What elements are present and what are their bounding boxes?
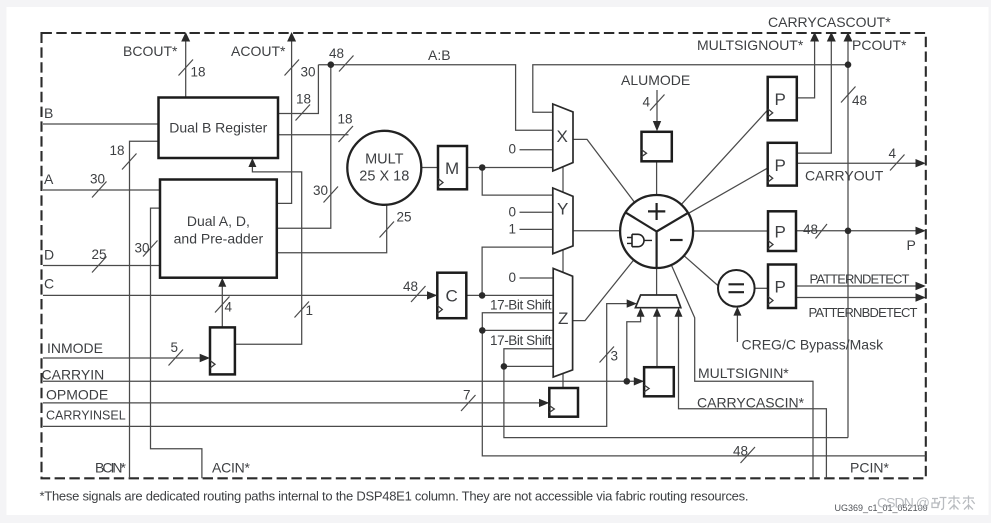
wire pre-adder to multiplier <box>277 205 387 253</box>
node A:B junction <box>328 61 335 68</box>
svg-text:ALUMODE: ALUMODE <box>621 72 690 88</box>
svg-text:M: M <box>445 159 459 178</box>
svg-text:25 X 18: 25 X 18 <box>359 169 409 185</box>
bus slash ACIN 30 <box>143 241 158 257</box>
wire B register to multiplier <box>278 134 349 136</box>
svg-text:4: 4 <box>643 95 651 110</box>
svg-text:7: 7 <box>463 388 471 403</box>
wire ALU to pattern comparator <box>684 256 718 286</box>
svg-text:ACOUT*: ACOUT* <box>231 43 286 59</box>
register CARRYIN <box>644 367 674 396</box>
wire B input <box>43 123 159 125</box>
svg-text:*These signals are dedicated r: *These signals are dedicated routing pat… <box>40 489 749 504</box>
register P CARRYOUT <box>768 143 797 186</box>
svg-text:30: 30 <box>90 172 105 187</box>
svg-text:P: P <box>775 223 786 242</box>
bus slash PCIN 48 <box>741 447 756 463</box>
svg-text:Dual B Register: Dual B Register <box>169 120 267 136</box>
wire PCIN bus <box>482 313 926 456</box>
node C output junction <box>479 292 486 299</box>
wire P feedback to Z mux shift input <box>504 349 848 438</box>
mux X <box>553 104 573 171</box>
arrowhead into C register <box>427 291 437 299</box>
wire ACOUT <box>277 34 292 203</box>
bus slash B to A:B 18 <box>296 105 311 121</box>
arrowhead into ALUMODE register <box>653 121 661 131</box>
bus slash INMODE 4 <box>215 297 230 313</box>
svg-text:OPMODE: OPMODE <box>46 387 108 403</box>
svg-text:3: 3 <box>611 349 619 364</box>
arrowhead CARRYOUT <box>916 159 926 167</box>
register P MULTSIGNOUT <box>768 77 797 120</box>
bus slash A to A:B 30 <box>324 187 339 203</box>
register Dual B <box>159 98 279 159</box>
wire C register to Z mux <box>466 294 553 296</box>
svg-text:48: 48 <box>403 279 418 294</box>
mux Y <box>553 188 573 254</box>
node M output junction <box>479 164 486 171</box>
wire CARRYINSEL input <box>43 304 635 427</box>
svg-text:CSDN @: CSDN @ <box>877 495 930 511</box>
wire AD feedback into B register <box>235 160 302 344</box>
svg-text:CARRYOUT: CARRYOUT <box>805 168 884 184</box>
svg-text:1: 1 <box>509 222 517 237</box>
svg-text:P: P <box>775 90 786 109</box>
svg-text:ACIN*: ACIN* <box>212 460 251 476</box>
arrowhead P output <box>916 227 926 235</box>
wire B register to A:B bus <box>278 65 318 114</box>
wire PCOUT vertical <box>847 34 849 438</box>
svg-text:0: 0 <box>509 205 517 220</box>
svg-text:Dual A, D,: Dual A, D, <box>187 213 250 229</box>
svg-text:5: 5 <box>171 340 179 355</box>
svg-text:30: 30 <box>301 65 316 80</box>
bus slash A:B 48 <box>339 56 354 72</box>
register INMODE <box>210 327 235 374</box>
bus slash A 30 <box>92 182 107 198</box>
svg-text:4: 4 <box>889 146 897 161</box>
wire OPMODE input <box>43 402 548 404</box>
wire X mux output to ALU <box>573 139 635 202</box>
wire MULTSIGNIN <box>671 265 813 478</box>
wire Y mux constant 0 stub <box>520 211 553 213</box>
svg-text:18: 18 <box>191 65 206 80</box>
dashed DSP48E1 slice border <box>42 33 926 478</box>
arrowhead into OPMODE register <box>539 399 549 407</box>
wire MULTSIGNOUT <box>797 34 815 98</box>
arrowhead into INMODE register <box>200 354 210 362</box>
bus slash pre-adder 25 <box>380 222 395 238</box>
wire ALU carry input from carry mux <box>656 232 658 296</box>
wire CARRYIN up to carry mux <box>627 310 641 381</box>
wire D input <box>43 265 160 267</box>
wire Y mux output to ALU <box>573 230 620 232</box>
node PCIN junction <box>479 327 486 334</box>
bus slash PCOUT 48 <box>841 87 856 103</box>
svg-text:B: B <box>44 105 53 121</box>
wire A path to A:B junction <box>277 65 331 229</box>
wire INMODE to pre-adder <box>221 280 223 327</box>
arrowhead into CARRYIN register <box>634 377 644 385</box>
wire C register to Y mux <box>482 247 553 295</box>
svg-text:D: D <box>44 247 54 263</box>
ALU logic gate symbol <box>627 234 652 246</box>
svg-text:PCOUT*: PCOUT* <box>852 37 907 53</box>
bus slash C 48 <box>411 286 426 302</box>
svg-text:0: 0 <box>509 142 517 157</box>
wire BCOUT <box>185 34 187 98</box>
mux Z <box>553 268 572 377</box>
wire INMODE input <box>43 357 208 359</box>
svg-text:4: 4 <box>225 300 233 315</box>
wire ALUMODE into register <box>656 90 658 129</box>
svg-text:BCOUT*: BCOUT* <box>123 43 178 59</box>
svg-text:1: 1 <box>306 303 314 318</box>
wire P feedback to Z mux input <box>504 365 553 367</box>
svg-text:Y: Y <box>557 200 568 219</box>
wire ALU to CARRYOUT P register <box>688 168 767 213</box>
arrowhead ACOUT <box>287 32 296 42</box>
wire P feedback to X mux <box>533 65 848 113</box>
wire Z mux constant 0 stub <box>520 277 554 279</box>
wire CARRYOUT <box>797 162 924 164</box>
svg-text:Z: Z <box>558 309 568 328</box>
svg-text:18: 18 <box>296 92 311 107</box>
register Dual A, D and Pre-adder <box>160 180 277 278</box>
svg-text:25: 25 <box>92 247 107 262</box>
svg-text:17-Bit Shift: 17-Bit Shift <box>490 333 552 348</box>
svg-text:INMODE: INMODE <box>47 340 103 356</box>
wire multiplier to M register <box>421 167 438 169</box>
arrowhead into B register <box>248 158 256 167</box>
svg-text:and Pre-adder: and Pre-adder <box>174 231 264 247</box>
arrowhead PATTERNBDETECT <box>916 293 926 301</box>
svg-text:18: 18 <box>110 143 125 158</box>
svg-text:PCIN*: PCIN* <box>850 460 889 476</box>
svg-text:C: C <box>44 276 54 292</box>
wire M register to X mux <box>467 167 553 169</box>
register C <box>437 273 466 319</box>
wire ALUMODE register to ALU <box>656 161 658 231</box>
wire A:B bus horizontal <box>318 65 552 131</box>
bus slash BCIN 18 <box>122 154 137 170</box>
arrowhead carry mux input 3 <box>675 308 683 317</box>
svg-text:A:B: A:B <box>428 47 451 63</box>
wire Z mux output to ALU <box>573 260 634 321</box>
svg-text:25: 25 <box>397 210 412 225</box>
bus slash P 48 <box>816 224 828 239</box>
arrowhead PCOUT <box>844 32 853 42</box>
wire comparator CREG bypass control <box>736 309 738 342</box>
arrowhead CARRYCASCOUT <box>827 32 836 42</box>
bus slash ALUMODE 4 <box>650 95 665 111</box>
register P output <box>768 211 796 251</box>
wire Y mux constant 1 stub <box>520 228 553 230</box>
register OPMODE <box>549 388 578 417</box>
register ALUMODE <box>642 132 672 162</box>
bus slash BCOUT 18 <box>179 60 194 76</box>
bus slash B to MULT 18 <box>339 126 354 142</box>
node P output junction <box>845 228 852 235</box>
arrowhead BCOUT <box>181 32 190 42</box>
arrowhead into pre-adder <box>218 278 226 287</box>
carry source mux <box>635 295 680 308</box>
wire A input <box>43 189 160 191</box>
ALU circle <box>620 195 693 268</box>
arrowhead MULTSIGNOUT <box>810 32 819 42</box>
pattern comparator circle <box>718 270 755 307</box>
svg-text:MULTSIGNIN*: MULTSIGNIN* <box>698 365 789 381</box>
arrowhead carry mux select <box>627 299 637 307</box>
svg-text:48: 48 <box>852 93 867 108</box>
svg-text:PATTERNBDETECT: PATTERNBDETECT <box>809 305 918 320</box>
svg-text:CARRYCASCOUT*: CARRYCASCOUT* <box>768 14 891 30</box>
svg-text:PATTERNDETECT: PATTERNDETECT <box>810 272 910 287</box>
svg-text:17-Bit Shift: 17-Bit Shift <box>490 298 552 313</box>
svg-text:CREG/C Bypass/Mask: CREG/C Bypass/Mask <box>742 337 885 353</box>
bus slash ACOUT 30 <box>285 60 300 76</box>
wire CARRYIN register output to carry mux <box>656 310 658 367</box>
arrowhead carry mux input 2 <box>653 308 661 317</box>
svg-text:X: X <box>557 127 568 146</box>
svg-text:30: 30 <box>313 183 328 198</box>
wire CARRYCASCOUT <box>797 34 832 153</box>
bus slash OPMODE 7 <box>461 395 476 411</box>
bus slash D 25 <box>92 257 107 273</box>
wire X mux constant 0 stub <box>520 149 553 151</box>
watermark hanzi <box>932 496 975 510</box>
bus slash INMODE 5 <box>169 350 184 366</box>
wire OPMODE select line through muxes <box>562 167 564 388</box>
wire BCIN <box>130 141 159 478</box>
register P pattern detect <box>768 265 796 309</box>
wire comparator to pattern P register <box>755 287 768 289</box>
svg-text:0: 0 <box>509 270 517 285</box>
svg-text:C: C <box>446 287 458 306</box>
wire C input <box>43 294 436 296</box>
bus slash CARRYOUT 4 <box>890 155 905 171</box>
svg-text:BCIN*: BCIN* <box>95 460 127 476</box>
wire CARRYIN input <box>43 380 643 382</box>
ALU minus symbol <box>670 239 683 241</box>
svg-text:CARRYIN: CARRYIN <box>42 367 105 383</box>
svg-text:48: 48 <box>733 444 748 459</box>
svg-text:48: 48 <box>329 46 344 61</box>
svg-text:MULTSIGNOUT*: MULTSIGNOUT* <box>697 37 804 53</box>
svg-text:P: P <box>907 237 916 253</box>
wire ACIN <box>151 208 202 478</box>
arrowhead PATTERNDETECT <box>916 282 926 290</box>
wire PATTERNBDETECT output <box>796 297 924 299</box>
wire ALU to P register <box>693 230 768 232</box>
wire CARRYCASCIN <box>679 310 827 478</box>
wire ALU to MULTSIGNOUT P register <box>681 110 768 205</box>
arrowhead into comparator <box>733 307 741 316</box>
bus slash CARRYINSEL 3 <box>600 347 615 363</box>
svg-text:18: 18 <box>338 112 353 127</box>
node CARRYIN junction <box>624 378 631 385</box>
ALU sector dividers <box>626 212 689 268</box>
register M <box>438 146 467 189</box>
ALU plus symbol <box>648 203 665 220</box>
svg-text:MULT: MULT <box>365 152 404 168</box>
svg-text:48: 48 <box>803 222 818 237</box>
svg-text:A: A <box>44 171 54 187</box>
svg-text:CARRYINSEL: CARRYINSEL <box>46 409 126 423</box>
wire P output <box>796 230 924 232</box>
wire PATTERNDETECT output <box>796 285 924 287</box>
wire PCIN to Z mux second input <box>482 329 553 331</box>
node P feedback junction <box>501 363 508 370</box>
arrowhead carry mux input 1 <box>637 308 645 317</box>
svg-text:CARRYCASCIN*: CARRYCASCIN* <box>697 395 805 411</box>
svg-text:P: P <box>775 156 786 175</box>
bus slash INMODE 1 <box>295 302 310 318</box>
svg-text:P: P <box>775 278 786 297</box>
node PCOUT junction <box>845 61 852 68</box>
multiplier MULT 25 X 18 <box>347 131 421 205</box>
wire M register to Y mux <box>482 168 553 196</box>
svg-text:30: 30 <box>135 241 150 256</box>
